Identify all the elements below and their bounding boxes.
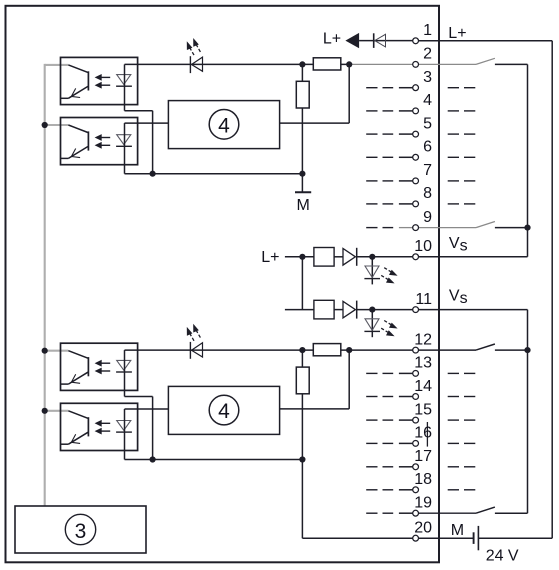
svg-text:7: 7 [423,162,432,179]
svg-text:3: 3 [423,69,432,86]
svg-text:9: 9 [423,209,432,226]
svg-text:4: 4 [423,92,432,109]
svg-text:17: 17 [414,448,432,465]
svg-text:6: 6 [423,139,432,156]
svg-text:20: 20 [414,520,432,537]
svg-text:L+: L+ [323,31,341,48]
svg-text:16: 16 [414,425,432,442]
svg-text:L+: L+ [261,249,279,266]
svg-text:11: 11 [415,291,432,308]
svg-text:2: 2 [423,46,432,63]
svg-text:Vs: Vs [449,235,468,254]
svg-text:19: 19 [414,495,432,512]
svg-text:8: 8 [423,185,432,202]
svg-text:5: 5 [423,115,432,132]
svg-text:13: 13 [414,355,432,372]
svg-text:M: M [451,522,464,539]
svg-text:12: 12 [414,331,432,348]
svg-text:1: 1 [423,22,432,39]
svg-text:15: 15 [414,401,432,418]
svg-text:10: 10 [414,238,432,255]
svg-text:Vs: Vs [449,288,468,307]
svg-text:L+: L+ [448,25,466,42]
svg-text:3: 3 [75,520,87,543]
svg-text:14: 14 [414,378,432,395]
svg-text:24 V: 24 V [486,547,519,564]
svg-text:M: M [297,197,310,214]
svg-text:4: 4 [218,114,230,137]
svg-text:4: 4 [218,400,230,423]
svg-text:18: 18 [414,471,432,488]
